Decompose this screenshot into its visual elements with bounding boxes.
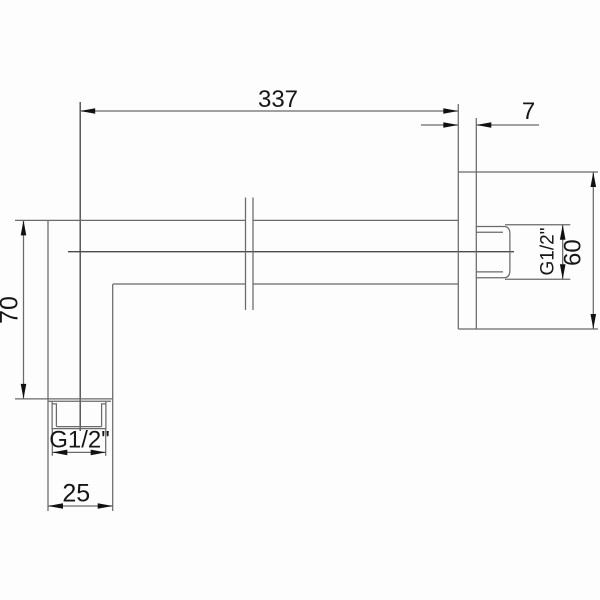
right G1/2 dimension line (562, 225, 564, 280)
wall plate right face (475, 118, 477, 329)
arm bottom edge right segment (253, 283, 458, 285)
arm bottom edge left segment (113, 283, 246, 285)
svg-text:G1/2": G1/2" (49, 427, 110, 454)
bottom G1/2 extension left (51, 429, 53, 456)
pipe break mark left (245, 198, 247, 311)
wall plate left face (457, 104, 459, 329)
leg bottom face / 70 extension (15, 398, 113, 400)
bottom G1/2 extension right (105, 429, 107, 456)
right thread root line top (476, 231, 503, 233)
right thread root line bottom (476, 271, 503, 273)
arm top edge left segment / 70 extension (15, 219, 246, 221)
arm centerline (68, 251, 514, 253)
leg left edge / 25 extension (47, 220, 49, 511)
svg-text:70: 70 (0, 296, 24, 324)
bottom thread inner bottom line (56, 426, 101, 428)
wall plate top edge / 60 extension (458, 171, 598, 173)
arm top edge right segment (253, 219, 458, 221)
dimension line 337 (80, 110, 458, 112)
dimension line 60 (592, 172, 594, 329)
pipe break mark right (252, 198, 254, 311)
leg right edge / 25 extension (112, 284, 114, 511)
wall plate bottom edge / 60 extension (458, 328, 598, 330)
right G1/2 extension top (505, 224, 570, 226)
dimension line 25 (48, 505, 113, 507)
leg centerline / 337 extension line (79, 102, 81, 431)
bottom G1/2 dimension line (52, 451, 105, 453)
bottom thread shoulder (48, 400, 111, 402)
bottom thread outline (52, 401, 106, 428)
dimension line 70 (23, 220, 25, 399)
svg-text:337: 337 (258, 86, 298, 113)
bottom thread relief notch right (102, 404, 106, 427)
svg-text:G1/2": G1/2" (538, 228, 559, 276)
bottom thread relief notch left (52, 404, 56, 427)
right thread outline (476, 227, 510, 278)
dimension 7 leader left (421, 124, 458, 126)
svg-text:25: 25 (62, 480, 90, 508)
dimension 7 leader right (476, 124, 539, 126)
svg-text:60: 60 (560, 239, 587, 266)
right G1/2 extension bottom (505, 278, 570, 280)
svg-text:7: 7 (522, 98, 535, 125)
